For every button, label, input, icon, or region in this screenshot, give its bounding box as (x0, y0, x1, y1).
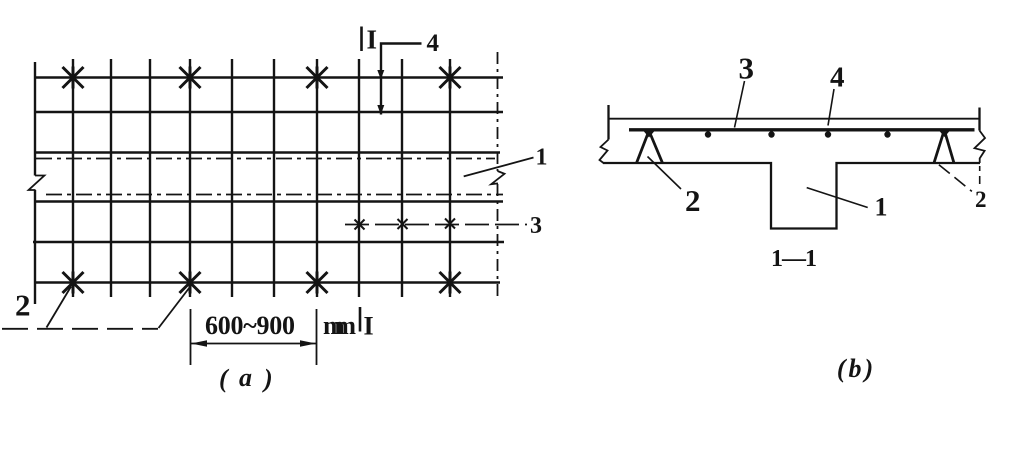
svg-text:a: a (239, 363, 252, 392)
svg-text:I: I (367, 25, 378, 55)
svg-text:1: 1 (875, 193, 888, 222)
svg-text:3: 3 (739, 51, 755, 86)
svg-text:mm: mm (323, 311, 356, 340)
svg-text:600~900: 600~900 (205, 311, 295, 340)
svg-text:(b): (b) (837, 354, 876, 383)
svg-text:I: I (364, 312, 374, 341)
svg-text:(: ( (219, 364, 230, 393)
svg-text:4: 4 (830, 62, 845, 94)
svg-text:2: 2 (975, 187, 987, 212)
svg-text:1: 1 (536, 145, 548, 171)
svg-text:2: 2 (15, 288, 31, 323)
svg-text:3: 3 (530, 213, 542, 239)
svg-text:2: 2 (685, 183, 701, 218)
svg-text:4: 4 (427, 30, 440, 57)
svg-text:): ) (262, 364, 273, 393)
svg-text:1—1: 1—1 (771, 246, 817, 272)
